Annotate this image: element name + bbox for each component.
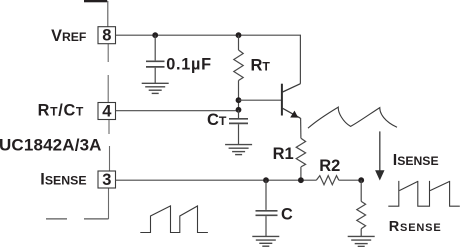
wire base node to Q1 base	[239, 99, 282, 101]
resistor R2	[316, 176, 339, 185]
IC U1 dashed outline left edge segments	[108, 44, 109, 219]
pin 4 box	[98, 103, 116, 121]
svg-text:R2: R2	[319, 157, 340, 175]
waveform ISENSE at RSENSE	[388, 181, 460, 206]
svg-text:C: C	[281, 206, 293, 224]
svg-text:ISENSE: ISENSE	[393, 152, 439, 169]
wire ISENSE net: pin 3 to R2	[116, 179, 317, 181]
pin 3 box	[98, 171, 116, 189]
capacitor C 0.1uF	[146, 35, 165, 83]
wire Q1 emitter to R1	[300, 118, 302, 138]
wire pin 4 to CT node	[116, 110, 239, 112]
junction dot C node	[263, 177, 269, 183]
ground below 0.1uF	[142, 83, 169, 93]
pin 8 box	[98, 27, 116, 45]
svg-text:3: 3	[102, 171, 111, 189]
svg-text:R1: R1	[273, 145, 294, 163]
svg-text:UC1842A/3A: UC1842A/3A	[0, 136, 102, 155]
junction dot base node	[236, 97, 242, 103]
svg-text:RT/CT: RT/CT	[38, 101, 84, 119]
svg-text:RSENSE: RSENSE	[389, 219, 442, 235]
capacitor C	[256, 180, 278, 236]
junction dot CT node	[236, 107, 242, 113]
svg-text:ISENSE: ISENSE	[40, 170, 86, 188]
IC U1 dashed outline top edge	[84, 0, 108, 27]
resistor RSENSE	[357, 180, 366, 236]
transistor Q1	[282, 84, 301, 119]
svg-text:CT: CT	[207, 111, 227, 129]
svg-text:RT: RT	[251, 56, 271, 74]
IC U1 dashed outline bottom edge	[46, 218, 109, 220]
resistor R1	[296, 138, 305, 180]
capacitor CT	[229, 110, 248, 144]
junction dot at RT tap	[236, 32, 242, 38]
svg-text:VREF: VREF	[51, 27, 86, 45]
ISENSE current arrow	[375, 131, 384, 180]
waveform sawtooth at Q1 emitter	[308, 107, 397, 128]
ground below RSENSE	[348, 236, 375, 246]
svg-text:4: 4	[102, 103, 112, 121]
resistor RT	[234, 35, 243, 110]
waveform sawtooth below pin 3	[140, 206, 208, 233]
ground below C	[252, 236, 279, 246]
wire VREF rail: pin 8 to collector corner	[116, 35, 301, 83]
wire R2 to RSENSE node	[339, 179, 361, 181]
svg-text:0.1µF: 0.1µF	[166, 55, 211, 73]
svg-text:8: 8	[102, 27, 111, 45]
junction dot RSENSE node	[358, 177, 364, 183]
ground below CT	[225, 145, 252, 155]
junction dot at 0.1uF tap	[152, 32, 158, 38]
junction dot R1 bottom	[298, 177, 304, 183]
